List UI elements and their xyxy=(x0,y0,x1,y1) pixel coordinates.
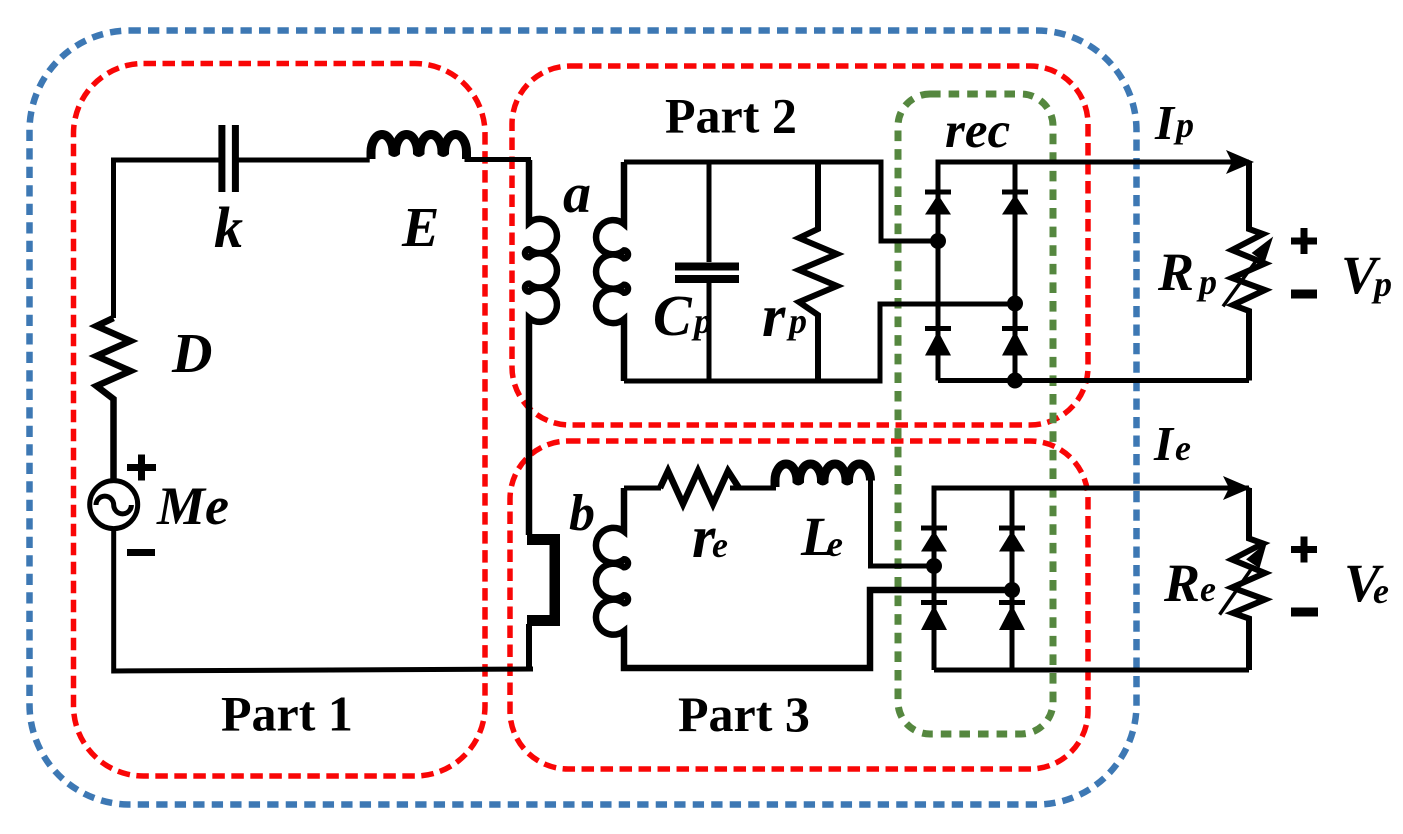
svg-text:R: R xyxy=(1163,553,1200,613)
svg-text:e: e xyxy=(712,525,728,565)
svg-text:R: R xyxy=(1157,242,1194,302)
svg-text:D: D xyxy=(171,323,212,385)
svg-text:r: r xyxy=(762,283,786,349)
svg-text:E: E xyxy=(401,197,439,259)
svg-text:C: C xyxy=(653,283,693,348)
svg-text:I: I xyxy=(1153,416,1175,471)
svg-text:a: a xyxy=(563,163,591,225)
svg-text:e: e xyxy=(1200,569,1216,609)
svg-text:e: e xyxy=(827,524,843,564)
svg-text:b: b xyxy=(569,485,595,542)
svg-text:e: e xyxy=(1175,428,1191,468)
svg-text:Part 2: Part 2 xyxy=(665,88,797,144)
svg-text:k: k xyxy=(214,195,243,260)
svg-text:p: p xyxy=(786,301,807,341)
svg-text:p: p xyxy=(691,301,712,341)
svg-text:p: p xyxy=(1173,105,1194,145)
svg-text:p: p xyxy=(1371,264,1392,304)
svg-text:p: p xyxy=(1196,262,1217,302)
svg-text:Part 1: Part 1 xyxy=(221,686,353,742)
svg-text:I: I xyxy=(1154,95,1176,150)
svg-text:e: e xyxy=(1373,571,1389,611)
svg-text:Me: Me xyxy=(156,476,229,536)
svg-text:Part 3: Part 3 xyxy=(678,686,810,742)
svg-text:rec: rec xyxy=(945,103,1010,159)
